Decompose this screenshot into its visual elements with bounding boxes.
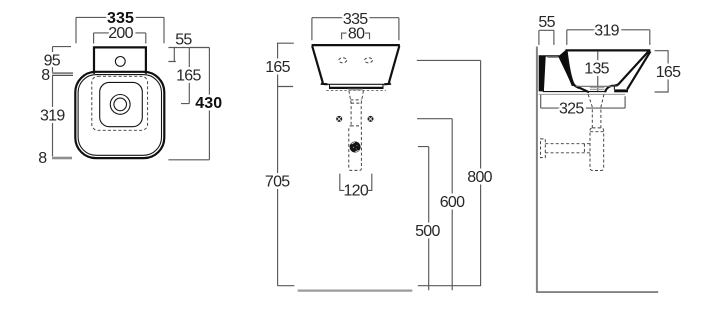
fixing hole left dashed: [339, 58, 347, 63]
drain inner circle: [114, 98, 127, 111]
wall plate dashed: [541, 139, 546, 158]
ref lines 8 top: [52, 73, 73, 75]
dim 55 line: [539, 30, 554, 45]
basin inner rim: [78, 75, 161, 156]
svg-text:55: 55: [175, 32, 192, 49]
waste fitting: [350, 142, 361, 153]
bottom thin line: [543, 91, 607, 93]
fixing hole right dashed: [365, 58, 373, 63]
drain outer circle: [110, 95, 130, 115]
basin right side: [384, 46, 399, 84]
drain hatch side: [590, 88, 604, 92]
faucet hole: [115, 57, 125, 67]
dim 200 line: [94, 33, 146, 44]
dim 165 line: [655, 51, 669, 92]
tap deck: [94, 47, 146, 73]
basin rim side: [565, 49, 650, 51]
svg-text:800: 800: [467, 169, 492, 186]
hidden bottom dashed: [326, 89, 386, 91]
foot step line: [613, 86, 615, 89]
svg-text:325: 325: [559, 100, 584, 117]
fixing screw right: [368, 116, 374, 122]
dim 120 marks: [340, 174, 372, 191]
dim 319 line: [52, 75, 54, 157]
floor line: [536, 291, 658, 293]
drain top line: [576, 85, 618, 87]
svg-text:705: 705: [265, 173, 290, 190]
ledge top edge: [547, 56, 558, 58]
wall line: [536, 47, 538, 293]
svg-text:319: 319: [594, 22, 619, 39]
svg-text:430: 430: [195, 95, 222, 112]
dim 335 line: [76, 17, 164, 43]
svg-text:135: 135: [584, 60, 609, 77]
bowl outline: [100, 82, 143, 126]
svg-text:165: 165: [265, 59, 290, 76]
dim 430 line: [168, 48, 209, 160]
drain pipe dashed: [588, 94, 604, 128]
svg-text:200: 200: [108, 25, 133, 42]
tailpipe dashed: [349, 91, 364, 126]
floor hatch: [298, 290, 413, 292]
outer right wall: [627, 51, 650, 89]
trap dashed: [349, 126, 362, 170]
dim 165 line: [181, 48, 189, 104]
dim 600 line: [417, 119, 452, 291]
hidden deck outline dashed: [92, 76, 148, 130]
svg-text:319: 319: [40, 107, 65, 124]
basin rim front: [312, 44, 400, 46]
dim 325 line: [541, 95, 625, 109]
svg-text:120: 120: [343, 182, 368, 199]
svg-text:55: 55: [538, 14, 555, 31]
trap side dashed: [590, 128, 604, 171]
dim 500 line: [418, 147, 429, 291]
base sides: [330, 84, 384, 87]
fixing screw left: [336, 116, 342, 122]
base bottom: [329, 87, 384, 89]
centerline 135: [597, 52, 599, 91]
base reference grey line: [539, 93, 625, 95]
dim 319 line: [567, 30, 650, 45]
basin outer rim: [75, 72, 164, 158]
basin back section black: [539, 50, 575, 91]
dim 800 line: [417, 60, 481, 285]
svg-text:8: 8: [41, 67, 50, 84]
dim 335 line: [312, 18, 399, 41]
svg-text:500: 500: [415, 223, 440, 240]
basin left side: [312, 46, 327, 84]
svg-text:600: 600: [440, 194, 465, 211]
svg-text:165: 165: [176, 68, 201, 85]
left dim line 165-705: [277, 43, 295, 286]
svg-text:80: 80: [348, 26, 365, 43]
foot: [614, 89, 628, 92]
svg-text:8: 8: [38, 150, 47, 167]
horizontal waste pipe dashed: [545, 132, 603, 153]
bowl interior left profile: [567, 52, 589, 93]
dim 80 marks: [342, 33, 370, 39]
bottom reference line: [418, 285, 481, 287]
svg-text:165: 165: [656, 64, 681, 81]
drain hatch front: [348, 88, 363, 91]
ref lines 8 bottom: [52, 157, 72, 160]
base top line: [328, 83, 385, 85]
dim 55 line: [168, 48, 175, 62]
dim 95 line: [53, 47, 72, 73]
right reference line: [168, 47, 209, 49]
bowl interior right profile: [605, 51, 649, 92]
